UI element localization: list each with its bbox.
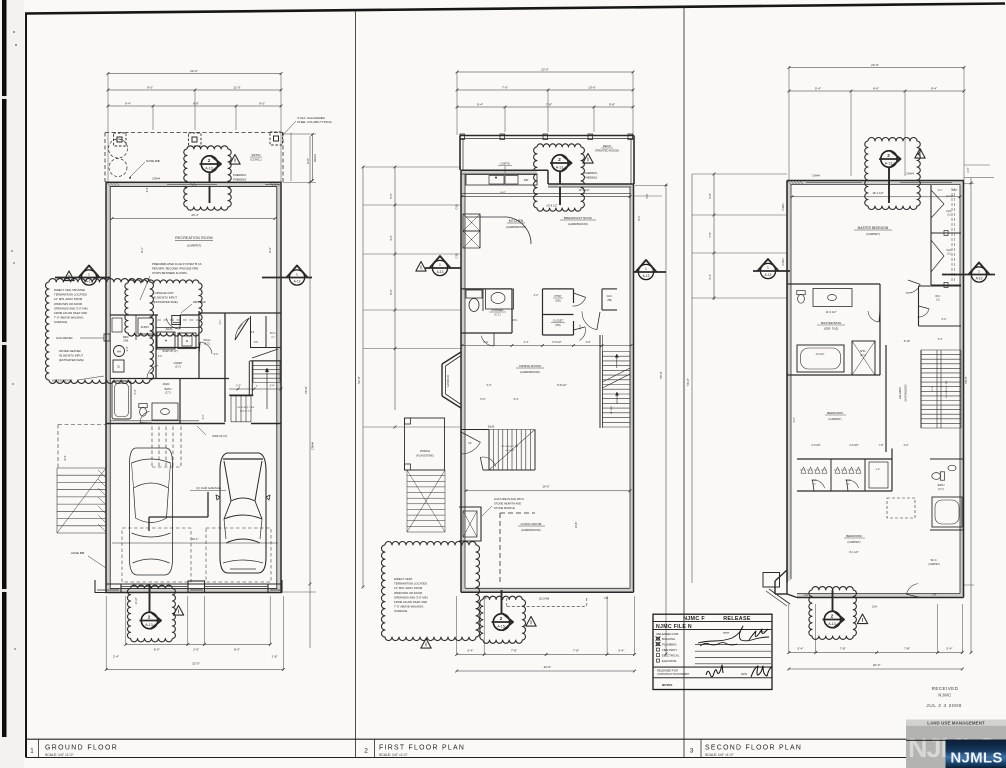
svg-text:(C.T.): (C.T.) (860, 354, 866, 357)
svg-text:GAS METER: GAS METER (56, 336, 72, 340)
wc room second floor (919, 285, 962, 287)
svg-text:(CARPET): (CARPET) (828, 417, 841, 421)
svg-text:STOPS BETWEEN FLOORS.: STOPS BETWEEN FLOORS. (152, 271, 188, 275)
svg-text:M.S.: M.S. (250, 332, 255, 334)
chimney box outside (763, 573, 780, 588)
svg-text:BEDROOM: BEDROOM (827, 411, 843, 415)
master bath fixtures (797, 291, 805, 304)
svg-text:CLO.: CLO. (946, 210, 952, 213)
garage pier middle (188, 581, 205, 593)
svg-text:(C): (C) (271, 337, 274, 339)
svg-text:A-13: A-13 (294, 280, 301, 284)
svg-text:(C): (C) (947, 215, 950, 217)
patio dashed outline (105, 132, 283, 134)
svg-text:A-13: A-13 (437, 270, 444, 274)
front door arc (461, 442, 480, 454)
svg-text:7'-0": 7'-0" (708, 232, 712, 238)
section marker left 1/A-13 (81, 270, 96, 285)
second floor dimension row 2 (789, 90, 964, 92)
svg-text:8'-8 1/2": 8'-8 1/2" (557, 383, 567, 387)
svg-text:C/4: C/4 (932, 594, 936, 597)
ground stair center rail (248, 361, 250, 395)
svg-text:8'-0": 8'-0" (234, 648, 240, 652)
detail marker 2/A-13 first floor deck (552, 155, 568, 171)
svg-text:(HD): (HD) (607, 300, 612, 302)
svg-text:30x30: 30x30 (166, 328, 173, 331)
garage car 2 (220, 453, 266, 573)
svg-text:DINING ROOM: DINING ROOM (519, 364, 541, 368)
closet door arcs (813, 480, 825, 488)
svg-text:A-13: A-13 (885, 162, 893, 166)
bath tub ground (112, 381, 131, 419)
hallway wall (885, 345, 887, 452)
svg-text:STONE HEARTH AND: STONE HEARTH AND (494, 502, 521, 506)
svg-text:5'-8 1/2": 5'-8 1/2" (552, 341, 561, 344)
second floor stairs right (921, 349, 961, 351)
svg-text:30x60: 30x60 (163, 383, 170, 386)
svg-text:4" 2'-0": 4" 2'-0" (946, 195, 954, 198)
second floor top dimension 22'-0" (789, 67, 964, 69)
detail marker 2/A-15 first floor bottom (493, 614, 509, 630)
svg-text:(C): (C) (936, 300, 939, 302)
svg-text:SCALE: 1/4" =1'-0": SCALE: 1/4" =1'-0" (705, 753, 734, 757)
svg-text:DATE: DATE (741, 673, 747, 676)
warning triangle below cloud (421, 639, 431, 649)
svg-text:20'-6": 20'-6" (542, 485, 549, 489)
svg-text:(ESTIMATED SIZE): (ESTIMATED SIZE) (59, 358, 84, 362)
svg-text:8'-4": 8'-4" (931, 86, 937, 90)
svg-text:20'-4": 20'-4" (191, 213, 198, 217)
title 1 ground floor (38, 739, 40, 757)
svg-text:RELEASED FOR: RELEASED FOR (657, 669, 678, 673)
svg-text:5'-4": 5'-4" (468, 649, 474, 653)
svg-text:DIRECT VENT: DIRECT VENT (394, 577, 413, 581)
svg-text:2: 2 (148, 614, 151, 619)
first floor cloud deck (534, 144, 585, 211)
panel divider 1-2 (355, 11, 357, 757)
NJMC file release form (653, 614, 772, 689)
wall hatch marks panel1 (107, 183, 111, 187)
svg-text:22'-0": 22'-0" (541, 67, 549, 71)
svg-text:4'-6": 4'-6" (500, 191, 505, 195)
svg-text:(2) CAR GARAGE: (2) CAR GARAGE (196, 486, 221, 490)
svg-text:LIVING ROOM: LIVING ROOM (521, 522, 542, 526)
svg-text:(22) 4'-2": (22) 4'-2" (506, 450, 515, 452)
svg-text:(HARDWOOD): (HARDWOOD) (905, 384, 908, 401)
svg-text:1: 1 (978, 270, 980, 274)
ground floor building outer walls (108, 184, 279, 590)
film strip left edge (2, 0, 7, 737)
svg-text:C/24: C/24 (872, 606, 878, 609)
svg-text:(TREATED WOOD): (TREATED WOOD) (595, 149, 620, 153)
svg-text:7'-8": 7'-8" (546, 102, 552, 106)
hall walls (199, 312, 281, 314)
svg-text:DECK: DECK (313, 154, 317, 162)
svg-text:STEP UP (4"): STEP UP (4") (162, 350, 177, 353)
svg-text:PATIO: PATIO (252, 153, 261, 157)
ground stair upper flight (253, 360, 280, 362)
bottom revision cloud garage (127, 585, 175, 642)
deck walls (460, 135, 634, 137)
svg-text:C/08: C/08 (456, 253, 459, 259)
svg-text:(CARPET): (CARPET) (866, 232, 880, 236)
svg-text:1: 1 (296, 273, 298, 277)
kitchen counter and sinks (466, 175, 537, 186)
svg-text:2'-0": 2'-0" (953, 189, 958, 192)
garage dim 20'-1" (112, 542, 278, 544)
svg-text:PER MFR. RECOMM. PROVIDE FIRE: PER MFR. RECOMM. PROVIDE FIRE (152, 267, 198, 271)
powder room (461, 288, 512, 290)
svg-text:1: 1 (88, 273, 90, 277)
form signature lines (695, 644, 771, 646)
exterior dashed walk left (58, 424, 106, 426)
right side dims top (964, 177, 994, 179)
svg-text:1: 1 (439, 263, 441, 267)
warning triangle first floor bottom (526, 617, 536, 627)
svg-text:(C): (C) (947, 254, 950, 256)
svg-text:L.C.: L.C. (876, 468, 881, 471)
sheet border top (25, 4, 1005, 14)
svg-text:4'-8 3/4": 4'-8 3/4" (811, 444, 820, 447)
svg-text:8'-0": 8'-0" (306, 158, 310, 164)
ground stair arrow (266, 368, 268, 409)
svg-text:(2) CAN8: (2) CAN8 (539, 598, 550, 601)
svg-text:(CER. TILE): (CER. TILE) (824, 327, 839, 331)
svg-text:C/W44: C/W44 (782, 258, 785, 266)
first floor outer wall gray cores (462, 172, 465, 590)
parking stall dashed right (206, 528, 271, 582)
svg-text:UP 14 R @ 7 3/4": UP 14 R @ 7 3/4" (501, 446, 519, 448)
water heater HH circle (114, 346, 125, 357)
svg-text:CLO.: CLO. (607, 295, 613, 298)
svg-text:OPENINGS AND 3'-0" MIN.: OPENINGS AND 3'-0" MIN. (54, 306, 89, 310)
detail marker 2/A-13 patio (201, 156, 217, 172)
svg-text:9'-0": 9'-0" (147, 85, 153, 89)
warning triangle second floor top (915, 149, 925, 159)
svg-text:56x30: 56x30 (488, 426, 495, 429)
warning triangle left (64, 271, 74, 281)
svg-text:8'-1 1/2": 8'-1 1/2" (849, 551, 858, 554)
svg-text:KITCHEN: KITCHEN (509, 219, 524, 223)
section marker first floor right (638, 264, 653, 279)
ground floor dimension row 2 (108, 89, 281, 91)
svg-text:7'-8": 7'-8" (879, 444, 884, 447)
svg-text:9'-0": 9'-0" (259, 101, 265, 105)
svg-text:RELEASED FOR:: RELEASED FOR: (657, 632, 680, 636)
svg-text:SECOND FLOOR PLAN: SECOND FLOOR PLAN (705, 745, 802, 752)
svg-text:40,000 BTU INPUT: 40,000 BTU INPUT (153, 296, 177, 300)
svg-text:3'-4": 3'-4" (202, 414, 205, 419)
svg-text:4'-0": 4'-0" (904, 444, 909, 447)
clo top right (602, 288, 617, 290)
wic door leaf 30x80 (235, 318, 249, 340)
svg-text:BEDROOM: BEDROOM (846, 534, 862, 538)
svg-text:NJMC: NJMC (938, 693, 951, 698)
svg-text:A-13: A-13 (205, 167, 213, 171)
svg-text:C/W44: C/W44 (152, 177, 160, 181)
svg-text:2'-0": 2'-0" (967, 167, 970, 172)
utility room walls (110, 314, 158, 316)
svg-text:20'-6 1/2": 20'-6 1/2" (546, 204, 557, 208)
dashed stair continuation in garage (151, 427, 153, 468)
svg-text:HOSE BIB: HOSE BIB (71, 551, 84, 555)
svg-text:MASTER BEDROOM: MASTER BEDROOM (858, 226, 889, 230)
svg-text:1: 1 (645, 267, 647, 271)
svg-text:8'-1": 8'-1" (140, 247, 144, 252)
svg-text:10'-4 1/2": 10'-4 1/2" (578, 188, 589, 192)
signature squiggles (698, 626, 769, 643)
svg-text:SURFACE: SURFACE (54, 320, 67, 324)
svg-text:3'-2": 3'-2" (793, 417, 796, 422)
svg-text:50'-0": 50'-0" (304, 386, 308, 393)
second floor bath (930, 458, 964, 460)
svg-text:3'-0": 3'-0" (126, 346, 129, 351)
svg-text:20'-1": 20'-1" (191, 537, 198, 541)
second floor bottom doors (906, 584, 918, 595)
first floor outer walls (460, 170, 462, 592)
svg-text:2: 2 (208, 158, 211, 163)
svg-text:WINDOWS OR DOOR: WINDOWS OR DOOR (54, 302, 82, 306)
svg-text:(HD): (HD) (555, 300, 560, 303)
svg-text:(C.T.): (C.T.) (165, 392, 171, 395)
wic wall (224, 313, 226, 422)
master bath door (868, 311, 879, 322)
dashed line living room (499, 513, 501, 583)
top wall windows second floor (806, 182, 862, 184)
svg-text:7'-8": 7'-8" (904, 647, 910, 651)
laundry sink S (113, 360, 124, 372)
warning triangle garage (173, 606, 183, 616)
svg-text:12" MIN. AWAY FROM: 12" MIN. AWAY FROM (394, 586, 423, 590)
svg-text:CONSTRUCTION PERMIT: CONSTRUCTION PERMIT (657, 672, 690, 676)
svg-text:22'-0": 22'-0" (192, 662, 200, 666)
svg-text:(CARPET): (CARPET) (847, 540, 860, 544)
first floor mid dim row (462, 345, 631, 347)
svg-text:3: 3 (690, 748, 694, 755)
svg-text:8'-0": 8'-0" (637, 215, 641, 220)
closet below pantry (573, 321, 575, 335)
warning triangle second floor bottom (857, 614, 867, 624)
svg-text:14'-8": 14'-8" (574, 522, 578, 529)
master bath walls (787, 283, 880, 285)
svg-text:5'-4": 5'-4" (798, 647, 804, 651)
svg-text:WINDOWS OR DOOR: WINDOWS OR DOOR (394, 591, 422, 595)
svg-text:2: 2 (887, 153, 890, 158)
svg-text:C/08: C/08 (456, 204, 459, 210)
svg-text:18'-1 1/2": 18'-1 1/2" (872, 191, 883, 195)
svg-text:50'-0": 50'-0" (659, 371, 663, 378)
svg-text:CLOSET: CLOSET (553, 319, 564, 323)
warning triangle deck (583, 154, 593, 164)
svg-text:C/4: C/4 (804, 594, 808, 597)
master tub (797, 345, 844, 372)
patio column B (189, 133, 202, 146)
svg-text:(C.T.): (C.T.) (175, 366, 181, 369)
52'-0 left dim (362, 167, 364, 587)
svg-text:BUILDING: BUILDING (662, 637, 675, 641)
svg-text:A-PO/40-20: A-PO/40-20 (447, 374, 450, 387)
svg-text:C/W44: C/W44 (782, 203, 785, 211)
svg-text:3'-4": 3'-4" (938, 338, 943, 341)
first floor left dims (394, 167, 396, 410)
svg-text:3'-8": 3'-8" (708, 193, 712, 199)
first floor bottom dims (457, 653, 635, 655)
svg-text:OPENINGS AND 3'-0" MIN.: OPENINGS AND 3'-0" MIN. (394, 595, 429, 599)
second floor right closets (930, 185, 932, 285)
ground floor dimension row 3 (108, 105, 281, 107)
closet row walls (787, 448, 930, 450)
bath door (140, 411, 150, 422)
garage pier left (95, 580, 121, 593)
svg-text:W.C.: W.C. (935, 295, 941, 298)
svg-text:A-13: A-13 (828, 622, 836, 626)
svg-text:JUL 2 4 2008: JUL 2 4 2008 (926, 703, 962, 709)
bath walls ground (179, 379, 181, 424)
title bar lines (26, 738, 1006, 740)
svg-text:4'-6 1/2": 4'-6 1/2" (816, 353, 825, 356)
svg-text:5'-10": 5'-10" (904, 339, 911, 343)
garage front wall and piers (106, 583, 281, 585)
svg-text:RECREATION ROOM: RECREATION ROOM (175, 236, 213, 240)
svg-text:M.S.: M.S. (513, 320, 518, 322)
svg-text:1: 1 (30, 748, 34, 755)
svg-text:9'-8": 9'-8" (609, 102, 615, 106)
svg-text:4'-0": 4'-0" (389, 235, 393, 241)
bay window (442, 352, 461, 364)
section marker second floor left (760, 263, 775, 278)
svg-text:DN 14 R @ 7 3/4": DN 14 R @ 7 3/4" (946, 380, 948, 398)
first floor right wall dims (665, 184, 667, 654)
hatch marks left wall (98, 470, 106, 478)
svg-text:GAS FIRE PLACE WITH: GAS FIRE PLACE WITH (494, 497, 524, 501)
first floor dimension row 3 (457, 106, 633, 108)
50'-0 second floor left (691, 174, 693, 583)
svg-text:5'-4": 5'-4" (947, 647, 953, 651)
svg-text:(C.T.): (C.T.) (938, 488, 944, 491)
svg-text:W.I.C.: W.I.C. (931, 559, 938, 562)
svg-text:B.I.C.: B.I.C. (270, 332, 276, 335)
svg-text:50'-0": 50'-0" (964, 376, 968, 383)
warning triangle patio (230, 155, 240, 165)
dashed closet rect (887, 498, 915, 518)
svg-text:5'-0": 5'-0" (942, 318, 947, 321)
svg-text:C/W44: C/W44 (812, 175, 820, 178)
living room width dim 20'-6 (466, 490, 630, 492)
svg-text:PHE80631,: PHE80631, (233, 173, 247, 177)
svg-text:FROM AN AIR INLET AND: FROM AN AIR INLET AND (54, 311, 87, 315)
svg-text:(HARDWOOD): (HARDWOOD) (520, 370, 539, 374)
svg-text:UP: UP (468, 443, 472, 445)
svg-text:4'-6": 4'-6" (873, 86, 879, 90)
svg-text:HALLWAY: HALLWAY (898, 387, 902, 400)
powder toilet (466, 290, 482, 298)
svg-text:5'-0": 5'-0" (480, 397, 485, 401)
deck posts (460, 134, 465, 140)
svg-text:ELECTRICAL: ELECTRICAL (662, 654, 680, 658)
svg-text:7'-6": 7'-6" (502, 85, 508, 89)
svg-text:TERMINATION LOCATED: TERMINATION LOCATED (394, 582, 427, 586)
svg-text:50'-0": 50'-0" (686, 378, 690, 385)
svg-text:(HARDWOOD): (HARDWOOD) (568, 222, 587, 226)
detail marker 2/A-13 second floor bottom (824, 611, 840, 627)
master shower (852, 341, 875, 375)
svg-text:STONE MANTLE: STONE MANTLE (494, 506, 515, 510)
fireplace (459, 507, 481, 541)
svg-text:11'-3 1/2": 11'-3 1/2" (826, 310, 837, 314)
svg-text:8'-0": 8'-0" (64, 455, 67, 460)
svg-text:6'-0": 6'-0" (484, 341, 489, 344)
svg-text:22'-0": 22'-0" (873, 663, 881, 667)
title 3 second floor plan (700, 739, 702, 757)
svg-text:C/8: C/8 (604, 597, 609, 600)
detail marker 2/A-13 garage (141, 612, 157, 628)
interior beam lines first floor (461, 192, 631, 194)
bedroom2 walls (787, 374, 880, 376)
ground floor top dimension 22'-0" (108, 73, 281, 75)
svg-text:1: 1 (767, 266, 769, 270)
master bedroom entry arc (906, 284, 921, 293)
powder vanity (486, 289, 514, 309)
svg-text:(ESTIMATED SIZE): (ESTIMATED SIZE) (153, 300, 178, 304)
svg-text:2'-2": 2'-2" (236, 385, 241, 388)
svg-text:3'-8": 3'-8" (586, 341, 591, 344)
svg-text:FURN.: FURN. (141, 325, 150, 329)
sheet border left (25, 13, 27, 758)
svg-text:A-13: A-13 (556, 166, 564, 170)
svg-text:H.S.: H.S. (254, 342, 259, 344)
kitchen peninsula arc (507, 217, 531, 244)
bath vanity ground (152, 403, 178, 420)
svg-text:2'-4": 2'-4" (113, 655, 119, 659)
svg-text:WATER METER: WATER METER (52, 379, 72, 383)
title 2 first floor plan (374, 739, 376, 757)
svg-text:4": 4" (256, 386, 258, 388)
svg-text:6'-8": 6'-8" (193, 101, 199, 105)
door arcs ground (147, 366, 158, 379)
svg-text:10'-6": 10'-6" (588, 85, 596, 89)
ground bottom dim 22'-0" (106, 669, 283, 671)
svg-text:C/W44: C/W44 (311, 441, 315, 449)
svg-text:2'-0": 2'-0" (579, 324, 582, 329)
svg-text:2: 2 (364, 748, 368, 755)
svg-text:DECK: DECK (603, 144, 611, 148)
stair arrows (616, 354, 618, 368)
top wall window C/W44 (167, 183, 217, 185)
svg-text:A-15: A-15 (497, 625, 505, 629)
svg-text:8'-0": 8'-0" (154, 648, 160, 652)
garage pier right (268, 580, 282, 593)
svg-text:3'-4": 3'-4" (158, 356, 163, 358)
svg-text:SHO.: SHO. (860, 350, 866, 353)
svg-text:NOTES: NOTES (662, 683, 672, 687)
svg-text:7'-0" ABOVE WALKING: 7'-0" ABOVE WALKING (54, 316, 83, 320)
svg-text:(HD): (HD) (555, 324, 560, 327)
svg-text:FIRST FLOOR PLAN: FIRST FLOOR PLAN (379, 745, 465, 752)
section marker first floor left (432, 260, 447, 275)
second floor outer walls (787, 180, 964, 182)
second floor bottom cloud (809, 587, 856, 640)
svg-text:FURNACE UNIT: FURNACE UNIT (153, 291, 174, 295)
land use management bar (906, 720, 1006, 768)
svg-text:5'-4": 5'-4" (134, 389, 137, 394)
svg-text:C/W44: C/W44 (906, 173, 914, 176)
svg-text:CAB.: CAB. (123, 340, 129, 343)
svg-text:LAND USE MANAGEMENT: LAND USE MANAGEMENT (927, 721, 985, 726)
closet rooms right (250, 316, 252, 348)
svg-text:11'-0": 11'-0" (233, 85, 240, 89)
svg-text:MASTER BATH: MASTER BATH (821, 321, 841, 325)
svg-text:WET BAR: WET BAR (193, 300, 206, 304)
